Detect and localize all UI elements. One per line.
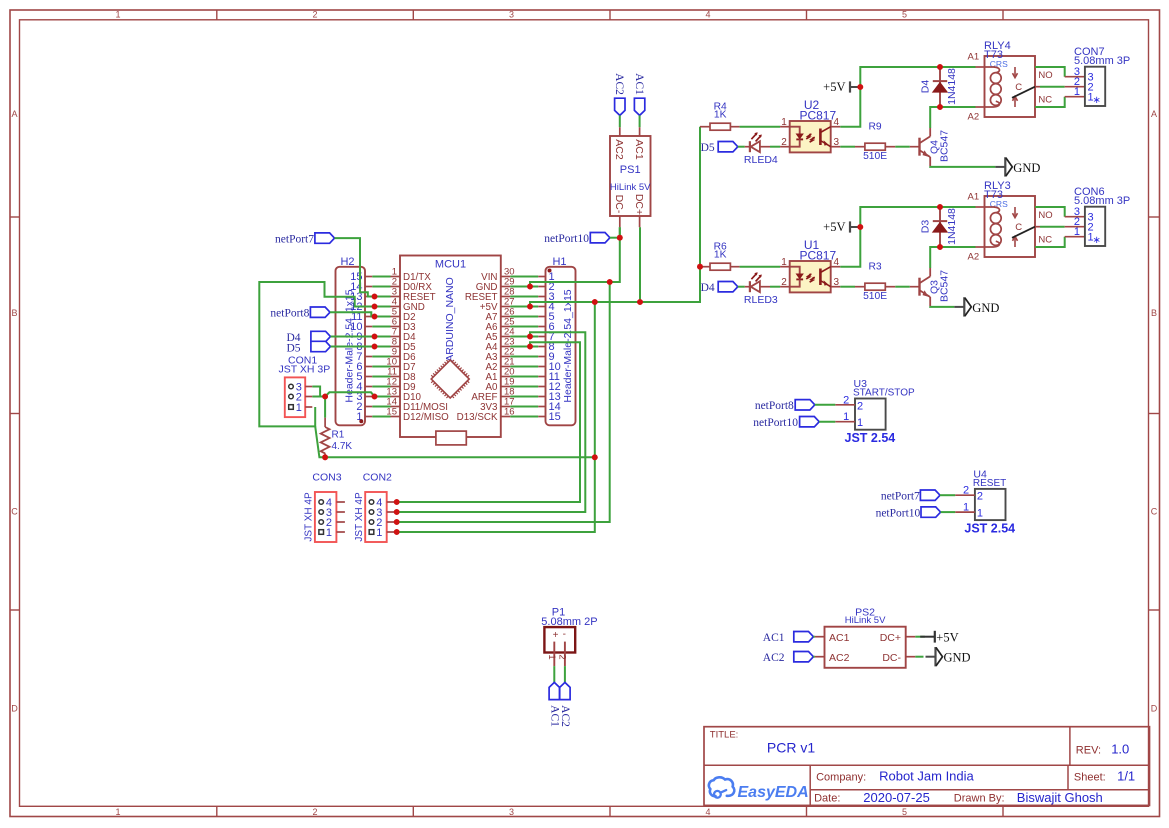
net flag D4 (left) [286, 331, 330, 344]
svg-text:netPort10: netPort10 [753, 417, 798, 429]
svg-text:1: 1 [546, 654, 557, 659]
svg-text:D12/MISO: D12/MISO [403, 412, 449, 423]
mcu U MCU1 ARDUINO_NANO [400, 256, 501, 445]
transistor Q3 BC547 [910, 268, 951, 306]
resistor R6 1K [700, 242, 740, 271]
junction dot CON1 pins [322, 394, 328, 400]
svg-text:3: 3 [834, 277, 840, 288]
svg-text:B: B [11, 308, 17, 318]
svg-text:JST 2.54: JST 2.54 [964, 521, 1015, 535]
svg-text:NC: NC [1038, 235, 1052, 246]
svg-text:2: 2 [781, 137, 787, 148]
junction dot +5V tap [857, 84, 863, 90]
net flag AC1 (PS1) [633, 73, 645, 115]
svg-text:ARDUINO_NANO: ARDUINO_NANO [444, 277, 456, 362]
svg-text:JST XH 3P: JST XH 3P [279, 364, 331, 376]
wire R4 to U pin1 [740, 126, 781, 128]
wire GND net row2 jog to PS1 DC- [530, 227, 620, 286]
wire C to CON pin2 [1040, 86, 1085, 88]
svg-text:2: 2 [843, 394, 849, 406]
svg-text:R1: R1 [332, 430, 345, 441]
svg-text:1/1: 1/1 [1117, 769, 1135, 784]
wire flag to LED [738, 146, 745, 148]
svg-text:DC-: DC- [882, 652, 901, 664]
svg-text:NO: NO [1038, 210, 1052, 221]
wire DC- to GND [915, 656, 923, 658]
junction dots diode [937, 204, 943, 250]
svg-text:3: 3 [509, 807, 514, 817]
svg-text:Robot Jam India: Robot Jam India [879, 769, 974, 784]
power module PS2 HiLink 5V [815, 606, 915, 667]
svg-text:1: 1 [115, 10, 120, 20]
svg-text:3: 3 [834, 137, 840, 148]
svg-text:5: 5 [902, 807, 907, 817]
svg-text:HiLink 5V: HiLink 5V [845, 615, 886, 626]
svg-text:MCU1: MCU1 [435, 259, 466, 271]
wire AC1 [813, 636, 815, 638]
svg-text:∗: ∗ [1093, 95, 1101, 106]
svg-text:Company:: Company: [816, 771, 866, 783]
junction dot +5V rail [592, 454, 598, 460]
net flag D4 [701, 282, 738, 295]
svg-text:D5: D5 [701, 142, 715, 154]
diode D4 1N4148 [920, 67, 959, 107]
wire NO to CON pin3 [1035, 207, 1085, 217]
junction dots left rows [372, 294, 378, 400]
svg-text:AC1: AC1 [548, 705, 560, 727]
junction dot +5V tap [857, 224, 863, 230]
wires PS1 AC pins [620, 115, 640, 127]
svg-text:netPort7: netPort7 [275, 234, 314, 246]
connector CON1 JST XH 3P [279, 354, 331, 417]
svg-text:DC+: DC+ [633, 194, 645, 215]
svg-text:AC2: AC2 [829, 652, 850, 664]
svg-text:CON3: CON3 [312, 472, 341, 484]
svg-text:JST XH 4P: JST XH 4P [304, 492, 315, 542]
wire netPort8 to D2 row [330, 312, 375, 316]
svg-text:Drawn By:: Drawn By: [954, 793, 1005, 805]
junction dots overlay [322, 64, 943, 535]
wire DC- lower green [619, 227, 621, 238]
connector P1 5.08mm 2P [541, 607, 597, 667]
svg-text:A: A [1151, 109, 1157, 119]
power flag +5V (PS2) [920, 630, 958, 644]
EasyEDA logo [709, 777, 809, 801]
svg-text:DC-: DC- [613, 195, 625, 214]
net flag netPort7 [275, 233, 334, 246]
wire D4 flag to row [331, 336, 375, 338]
svg-text:JST 2.54: JST 2.54 [845, 431, 896, 445]
power flag GND (PS2) [926, 647, 971, 666]
svg-text:NC: NC [1038, 95, 1052, 106]
resistor R1 4.7K [321, 397, 353, 458]
svg-text:1: 1 [843, 411, 849, 423]
wires P1 to AC flags [554, 666, 565, 682]
svg-text:D4: D4 [920, 80, 932, 94]
wire Q emitter to GND [930, 305, 954, 308]
wire CON2 pin3 to H1 pin8 net [397, 332, 586, 512]
svg-text:1K: 1K [714, 249, 727, 260]
svg-text:D: D [1151, 704, 1158, 714]
svg-text:R3: R3 [869, 262, 882, 273]
svg-text:+: + [553, 630, 559, 641]
svg-text:JST XH 4P: JST XH 4P [354, 492, 365, 542]
net flag netPort8 (pin2) [755, 400, 815, 413]
svg-text:2: 2 [312, 807, 317, 817]
svg-text:Header-Male-2.54_1x15: Header-Male-2.54_1x15 [562, 289, 574, 402]
svg-text:D5: D5 [286, 343, 300, 355]
wire flag pin1 [941, 511, 956, 513]
svg-text:netPort8: netPort8 [270, 308, 309, 320]
svg-text:A1: A1 [968, 51, 980, 62]
wires H2 to MCU rows [372, 277, 390, 417]
optocoupler U1 PC817 [780, 238, 840, 292]
svg-text:AC2: AC2 [613, 73, 625, 95]
led RLED3 [744, 272, 778, 306]
svg-text:AC2: AC2 [613, 139, 625, 160]
connector CON7 5.08mm 3P [1074, 46, 1130, 106]
svg-text:1: 1 [326, 527, 332, 539]
wire flag pin2 [940, 494, 955, 496]
svg-text:TITLE:: TITLE: [710, 730, 739, 741]
svg-text:PC817: PC817 [799, 109, 836, 123]
svg-text:1: 1 [781, 257, 787, 268]
svg-text:-: - [563, 629, 566, 640]
net flag netPort10 (pin1) [753, 417, 819, 430]
svg-text:2: 2 [781, 277, 787, 288]
svg-text:C: C [1151, 507, 1158, 517]
power module PS1 HiLink 5V [610, 127, 651, 227]
svg-text:1: 1 [857, 417, 863, 429]
svg-text:A1: A1 [968, 191, 980, 202]
wire diode bottom to relay A2 [940, 246, 985, 248]
wire CON1 pin1 / GND loop [259, 282, 374, 426]
mcu pins and pin labels [386, 267, 514, 424]
svg-text:AC1: AC1 [763, 632, 785, 644]
svg-text:D3: D3 [920, 220, 932, 234]
svg-text:H2: H2 [340, 256, 354, 268]
svg-text:H1: H1 [552, 256, 566, 268]
net flag AC2 (PS1) [613, 73, 625, 115]
wire Q collector to diode [930, 247, 940, 268]
wire NC to CON pin1 [1035, 237, 1085, 247]
svg-text:5.08mm 2P: 5.08mm 2P [541, 616, 597, 628]
svg-text:PC817: PC817 [799, 249, 836, 263]
junction dots right rows [527, 284, 533, 350]
transistor Q4 BC547 [910, 128, 951, 166]
header H1 Header-Male-2.54_1x15 [538, 256, 575, 425]
svg-text:1: 1 [1074, 86, 1080, 98]
wire netPort7 to RESET row [335, 238, 375, 296]
svg-text:510E: 510E [863, 151, 887, 162]
wire PS1 DC+ drop [639, 227, 641, 302]
net flag netPort10 (pin1) [876, 507, 941, 520]
connector CON2 JST XH 4P [354, 472, 395, 542]
led RLED4 [744, 132, 778, 166]
svg-text:510E: 510E [863, 291, 887, 302]
wires CON1 pins 2,3 to R1 junction [312, 387, 325, 397]
svg-text:Date:: Date: [814, 793, 840, 805]
wire R1 junction to D10 row [325, 392, 374, 396]
junction dot GND jog [607, 279, 613, 285]
wire +5V rail horizontal [315, 426, 595, 457]
wire Q emitter to GND [930, 165, 995, 168]
svg-text:+5V: +5V [936, 630, 958, 644]
svg-text:BC547: BC547 [938, 130, 950, 162]
net flag netPort7 (pin2) [881, 490, 940, 503]
relay RLY4 T73 [968, 40, 1053, 123]
svg-text:netPort10: netPort10 [876, 508, 921, 520]
svg-text:R9: R9 [869, 122, 882, 133]
net flag netPort10 (PS1) [544, 233, 610, 246]
header H2 Header-Male-2.54_1x15 [336, 256, 373, 425]
svg-text:1N4148: 1N4148 [946, 68, 958, 105]
svg-text:Biswajit Ghosh: Biswajit Ghosh [1017, 790, 1103, 805]
wire netPort10 to DC- [610, 235, 623, 241]
svg-text:2020-07-25: 2020-07-25 [863, 790, 930, 805]
power flag +5V [823, 220, 859, 234]
svg-text:netPort8: netPort8 [755, 400, 794, 412]
svg-text:REV:: REV: [1076, 744, 1101, 756]
wire C to CON pin2 [1040, 226, 1085, 228]
wire CON2 pin1 to +5V vertical [397, 302, 595, 532]
net flag netPort8 [270, 307, 330, 320]
svg-text:4: 4 [705, 10, 710, 20]
wire +5V net row4 to x700 rail [530, 127, 700, 307]
net flag AC1 (PS2) [763, 632, 814, 645]
wire R to Q base [895, 146, 910, 148]
power flag GND [995, 157, 1040, 176]
svg-text:1: 1 [376, 527, 382, 539]
svg-text:Sheet:: Sheet: [1074, 771, 1106, 783]
svg-text:C: C [1015, 82, 1022, 93]
svg-text:1: 1 [781, 117, 787, 128]
svg-text:A2: A2 [968, 112, 980, 123]
wire R to Q base [895, 286, 910, 288]
connector U4 RESET JST 2.54 [955, 468, 1015, 535]
svg-text:C: C [11, 507, 18, 517]
wire CON2 pin2 to GND vertical [397, 282, 610, 522]
wire LED to U pin2 [770, 146, 780, 148]
svg-text:GND: GND [1013, 161, 1040, 175]
svg-text:5.08mm 3P: 5.08mm 3P [1074, 195, 1130, 207]
wire diode top to relay A1 [940, 206, 985, 208]
svg-text:D4: D4 [701, 282, 715, 294]
junction dots CON2 pins [394, 499, 400, 535]
resistor R9 510E [840, 122, 895, 163]
svg-text:CON2: CON2 [363, 472, 392, 484]
wire LED to U pin2 [770, 286, 780, 288]
svg-text:AC1: AC1 [633, 139, 645, 160]
svg-text:1: 1 [977, 508, 983, 520]
svg-text:RLED4: RLED4 [744, 154, 778, 166]
svg-text:2: 2 [963, 485, 969, 497]
net flag AC2 (PS2) [763, 652, 814, 665]
svg-text:15: 15 [549, 411, 561, 423]
svg-text:D13/SCK: D13/SCK [457, 412, 498, 423]
svg-text:2: 2 [557, 654, 568, 659]
svg-text:HiLink 5V: HiLink 5V [610, 182, 651, 193]
wire DC+ to +5V [915, 636, 925, 638]
wire NO to CON pin3 [1035, 67, 1085, 77]
svg-text:A: A [11, 109, 17, 119]
junction dot R6 tap [697, 264, 703, 270]
resistor R4 1K [700, 102, 740, 131]
svg-text:EasyEDA: EasyEDA [738, 784, 809, 801]
junction dots +5V row [592, 299, 643, 305]
svg-text:B: B [1151, 308, 1157, 318]
svg-text:2: 2 [977, 491, 983, 503]
svg-text:1: 1 [115, 807, 120, 817]
svg-text:D: D [11, 704, 18, 714]
svg-text:2: 2 [312, 10, 317, 20]
svg-text:+5V: +5V [823, 220, 845, 234]
wire flag pin2 [815, 404, 836, 406]
wire U pin4 to top rail [840, 67, 940, 127]
svg-text:4.7K: 4.7K [332, 441, 353, 452]
connector U3 START/STOP JST 2.54 [835, 378, 915, 445]
svg-text:∗: ∗ [1093, 235, 1101, 246]
svg-text:A2: A2 [968, 252, 980, 263]
svg-text:4: 4 [705, 807, 710, 817]
svg-text:AC2: AC2 [763, 652, 785, 664]
wires MCU to H1 rows [510, 277, 538, 417]
svg-text:NO: NO [1038, 70, 1052, 81]
net flag AC1 (P1) [548, 682, 560, 727]
relay RLY3 T73 [968, 180, 1053, 263]
connector CON3 JST XH 4P [304, 472, 345, 542]
svg-text:RESET: RESET [973, 478, 1006, 489]
diode D3 1N4148 [920, 207, 959, 247]
svg-text:+5V: +5V [823, 80, 845, 94]
svg-text:BC547: BC547 [938, 270, 950, 302]
svg-text:AC1: AC1 [829, 632, 850, 644]
wire diode bottom to relay A2 [940, 106, 985, 108]
optocoupler U2 PC817 [780, 98, 840, 152]
svg-text:1: 1 [296, 402, 302, 414]
svg-text:RLED3: RLED3 [744, 294, 778, 306]
wire Q collector to diode [930, 107, 940, 128]
svg-text:netPort7: netPort7 [881, 491, 920, 503]
svg-text:GND: GND [944, 651, 971, 665]
junction dot R1 bottom [322, 454, 328, 460]
svg-text:3: 3 [509, 10, 514, 20]
net flag AC2 (P1) [559, 682, 571, 727]
svg-text:netPort10: netPort10 [544, 233, 589, 245]
net flag D5 [701, 142, 738, 155]
net flag D5 (left) [286, 341, 330, 354]
svg-text:PCR v1: PCR v1 [767, 739, 815, 755]
title block [704, 727, 1150, 806]
svg-text:1: 1 [963, 502, 969, 514]
svg-text:GND: GND [972, 301, 999, 315]
wire flag pin1 [819, 421, 835, 423]
svg-text:DC+: DC+ [880, 632, 901, 644]
svg-text:1.0: 1.0 [1111, 742, 1129, 757]
svg-text:START/STOP: START/STOP [853, 388, 915, 399]
svg-text:2: 2 [857, 400, 863, 412]
svg-text:1: 1 [1074, 226, 1080, 238]
wire R6 to U pin1 [740, 266, 781, 268]
wire AC2 [813, 656, 815, 658]
wire diode top to relay A1 [940, 66, 985, 68]
svg-text:1N4148: 1N4148 [946, 208, 958, 245]
power flag GND [954, 297, 999, 316]
svg-text:C: C [1015, 222, 1022, 233]
wire U pin4 to top rail [840, 207, 940, 267]
resistor R3 510E [840, 262, 895, 303]
svg-text:PS1: PS1 [620, 164, 641, 176]
connector CON6 5.08mm 3P [1074, 186, 1130, 246]
wire flag to LED [738, 286, 745, 288]
wire NC to CON pin1 [1035, 97, 1085, 107]
svg-text:5: 5 [902, 10, 907, 20]
svg-text:1K: 1K [714, 109, 727, 120]
svg-text:AC1: AC1 [633, 73, 645, 95]
power flag +5V [823, 80, 859, 94]
wire D5 flag to row [331, 346, 375, 348]
svg-text:5.08mm 3P: 5.08mm 3P [1074, 55, 1130, 67]
svg-text:AC2: AC2 [559, 705, 571, 727]
junction dots diode [937, 64, 943, 110]
wire CON2 pin4 to H1 pin7 net [397, 342, 580, 502]
